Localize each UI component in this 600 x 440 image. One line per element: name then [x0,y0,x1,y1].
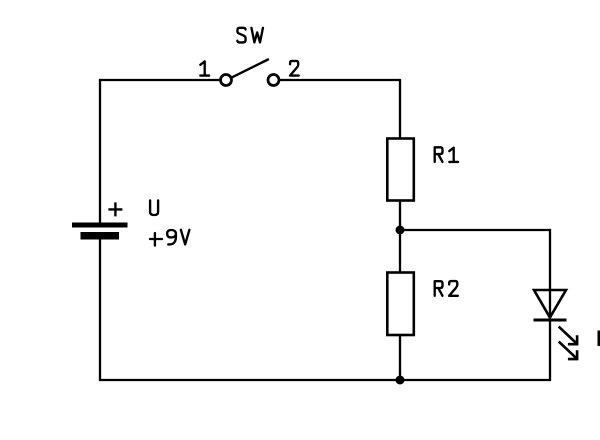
label U [150,200,158,215]
wire: left vertical from battery negative plate down to bottom wire [99,240,101,382]
label R2 [435,281,458,296]
wire: node A down to R2 top [399,230,401,273]
LED D triangle (anode) [534,290,566,318]
wire: right vertical from top wire down to R1 [399,79,401,139]
battery plus sign [108,202,122,216]
label SW [237,28,263,43]
switch SW arm (open) [232,60,268,78]
label R1 [435,147,458,162]
battery U negative plate (short thick) [81,232,120,240]
wire: LED branch vertical from node A wire down through LED to bottom wire [549,229,551,381]
resistor R2 body [387,273,414,336]
wire: top horizontal from switch terminal 2 to right branch [280,79,400,81]
LED D cathode bar [534,319,567,322]
wire: node A horizontal to LED branch [400,229,550,231]
node B junction dot [396,376,405,385]
LED designator label (clipped at image edge) [598,331,600,347]
wire: R2 bottom to bottom node B [399,335,401,380]
LED light arrow 1 [559,327,577,345]
switch SW terminal 2 circle (pin 2) [268,75,279,86]
wire: bottom horizontal from left branch to LED branch [100,379,550,381]
LED light arrow 2 [559,342,577,360]
wire: R1 bottom to node A [399,201,401,231]
wire: top horizontal from battery branch to switch terminal 1 [100,79,219,81]
battery U positive plate (long thin) [72,223,128,228]
label pin 2 [290,61,299,76]
switch SW terminal 1 circle (pin 1) [221,75,232,86]
wire: left vertical from top wire down to battery positive plate [99,79,101,223]
label pin 1 [200,61,209,75]
label +9V [150,230,189,246]
resistor R1 body [387,139,414,201]
node A junction dot [396,226,405,235]
